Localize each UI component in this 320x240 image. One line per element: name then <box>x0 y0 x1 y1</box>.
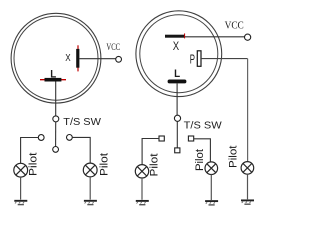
wire pilot lamp 3 to ground <box>141 178 143 200</box>
switch bottom contact (left T/S switch) <box>53 147 59 153</box>
wire X to VCC terminal (left) <box>80 58 116 60</box>
ground 1 <box>14 201 27 205</box>
contact L (left housing) red strip <box>40 79 66 81</box>
wire X to VCC terminal (right) <box>185 36 244 38</box>
switch housing right, inner circle <box>140 15 218 93</box>
switch housing left, outer circle <box>11 13 101 103</box>
switch throw contact left (left T/S switch) <box>38 135 44 141</box>
wire L down to T/S SW terminal (right) <box>176 83 178 115</box>
contact X (right housing) bar <box>165 35 185 38</box>
wire L down to T/S SW terminal (left) <box>55 82 57 116</box>
svg-text:VCC: VCC <box>106 42 120 53</box>
terminal VCC (left) <box>116 56 122 62</box>
svg-text:X: X <box>65 53 71 64</box>
terminal T/S SW (left) <box>53 116 59 122</box>
pilot lamp 3 <box>135 165 148 178</box>
wire pilot lamp 5 to ground <box>247 174 249 199</box>
switch bottom contact square (right T/S switch) <box>175 148 180 153</box>
svg-text:Pilot: Pilot <box>149 154 161 177</box>
pilot lamp 4 <box>205 162 218 175</box>
switch housing right, outer circle <box>136 11 222 97</box>
switch pole wire (left T/S switch) <box>55 122 57 146</box>
switch throw contact right (left T/S switch) <box>67 135 73 141</box>
svg-text:Pilot: Pilot <box>194 149 206 171</box>
terminal T/S SW (right) <box>174 115 180 121</box>
wire pilot lamp 1 to ground <box>20 177 22 200</box>
contact L (left housing) bar <box>45 78 62 82</box>
svg-text:P: P <box>190 51 195 66</box>
wire pilot lamp 4 to ground <box>210 175 212 201</box>
wire throw-right to pilot lamp 4 <box>194 139 211 162</box>
switch pole wire (right T/S switch) <box>176 122 178 148</box>
svg-text:X: X <box>173 41 180 53</box>
wire P horizontal <box>201 58 248 60</box>
contact X (left housing) bar <box>76 49 79 68</box>
switch throw contact right square (right T/S switch) <box>188 136 193 141</box>
wire P vertical down to pilot lamp 5 <box>247 59 249 162</box>
svg-text:L: L <box>174 68 180 80</box>
contact L (right housing) bar <box>168 80 187 84</box>
svg-text:Pilot: Pilot <box>227 146 239 169</box>
pilot lamp 1 <box>14 163 28 177</box>
switch housing left, inner circle <box>14 16 98 100</box>
terminal VCC (right) <box>245 34 251 40</box>
ground 5 <box>241 200 254 204</box>
wire throw-right to pilot lamp 2 <box>72 137 90 163</box>
wire throw-left to pilot lamp 1 <box>21 138 39 164</box>
ground 3 <box>136 201 149 205</box>
contact X (left housing) red strip <box>77 45 79 71</box>
svg-text:L: L <box>50 68 56 80</box>
contact P (right housing) <box>197 51 201 67</box>
svg-text:Pilot: Pilot <box>28 153 40 177</box>
contact X (right housing) red tick <box>184 33 186 38</box>
ground 4 <box>205 201 218 205</box>
pilot lamp 5 <box>241 162 254 175</box>
pilot lamp 2 <box>83 163 97 177</box>
wire throw-left to pilot lamp 3 <box>142 139 159 165</box>
svg-text:T/S SW: T/S SW <box>184 120 222 131</box>
svg-text:VCC: VCC <box>225 19 244 31</box>
svg-text:T/S SW: T/S SW <box>63 116 101 128</box>
ground 2 <box>84 201 97 205</box>
svg-text:Pilot: Pilot <box>98 153 110 176</box>
wire pilot lamp 2 to ground <box>89 177 91 200</box>
switch throw contact left square (right T/S switch) <box>159 136 164 141</box>
